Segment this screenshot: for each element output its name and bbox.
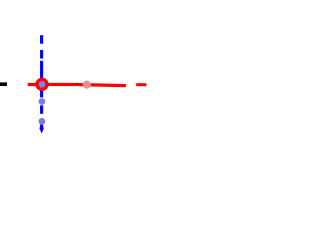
- blue down arrowhead at bottom of asymptote: [39, 128, 44, 134]
- blue dashed vertical asymptote line x=a: [40, 35, 43, 128]
- red long segment under pink point, slight sag: [79, 85, 126, 86]
- open point (ring) at intersection with periwinkle fill: [37, 79, 47, 89]
- black bar at left edge: [0, 82, 7, 86]
- pink point on horizontal line: [83, 81, 91, 89]
- red horizontal line solid segment: [28, 83, 76, 86]
- periwinkle point 2 on asymptote: [39, 118, 46, 125]
- periwinkle point 1 on asymptote: [39, 98, 46, 105]
- faded red connector segment: [76, 83, 80, 86]
- red final dash: [136, 83, 146, 86]
